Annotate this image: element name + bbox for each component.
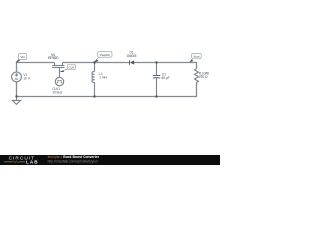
ground: [12, 97, 20, 105]
svg-text:68 µF: 68 µF: [161, 76, 169, 80]
junction dot V1/ground/rail: [15, 95, 17, 97]
wire M1 source to Vswitch node to diode cathode: [63, 62, 130, 64]
capacitor C1: [153, 63, 160, 97]
label M1 IRF5820: [48, 53, 59, 60]
junction dot Vswitch/L1 top: [93, 61, 95, 63]
node flag CLK: [60, 65, 76, 73]
resistor R_LOAD: [195, 69, 199, 83]
clock source CLK1: [55, 77, 63, 85]
label C1 68 uF: [161, 73, 169, 81]
junction dot L1 bottom: [93, 95, 95, 97]
svg-text:LAB: LAB: [26, 160, 39, 165]
node flag Vswitch: [94, 52, 112, 63]
inductor L1: [92, 63, 95, 97]
mosfet M1: [52, 63, 64, 78]
svg-text:1 mH: 1 mH: [99, 76, 107, 80]
label R_LOAD 220 ohm: [199, 72, 210, 80]
label D1 1N4005: [127, 50, 137, 58]
footer bar: [0, 155, 220, 165]
diode D1: [130, 60, 135, 65]
svg-text:Vswitch: Vswitch: [100, 53, 111, 57]
node flag Vout: [189, 53, 201, 62]
label CLK1 10 kHz: [52, 87, 62, 95]
junction dot C1 top: [155, 61, 157, 63]
svg-text:IRF5820: IRF5820: [48, 56, 59, 60]
voltage source V1: [12, 72, 22, 82]
svg-text:http://circuitlab.com/c/ph/3be: http://circuitlab.com/c/ph/3be62yru2: [48, 159, 99, 163]
label L1 1 mH: [99, 72, 107, 80]
node flag Vin: [16, 54, 27, 63]
svg-text:10 V: 10 V: [23, 77, 30, 81]
wire bottom ground rail: [17, 82, 197, 97]
svg-text:1N4005: 1N4005: [127, 54, 137, 58]
junction dot C1 bottom: [155, 95, 157, 97]
svg-text:Vin: Vin: [20, 55, 25, 59]
wire top rail left segment (Vin corner to M1 drain): [17, 63, 55, 73]
svg-text:CLK: CLK: [68, 65, 74, 69]
footer logo CIRCUITLAB: [4, 156, 39, 165]
M1 gate wire to clock: [59, 68, 61, 78]
svg-text:10 kHz: 10 kHz: [52, 90, 62, 94]
svg-text:Vout: Vout: [193, 54, 199, 58]
wire diode anode to Vout corner: [134, 63, 196, 69]
label V1 10 V: [23, 73, 30, 81]
svg-text:220 Ω: 220 Ω: [199, 75, 208, 79]
